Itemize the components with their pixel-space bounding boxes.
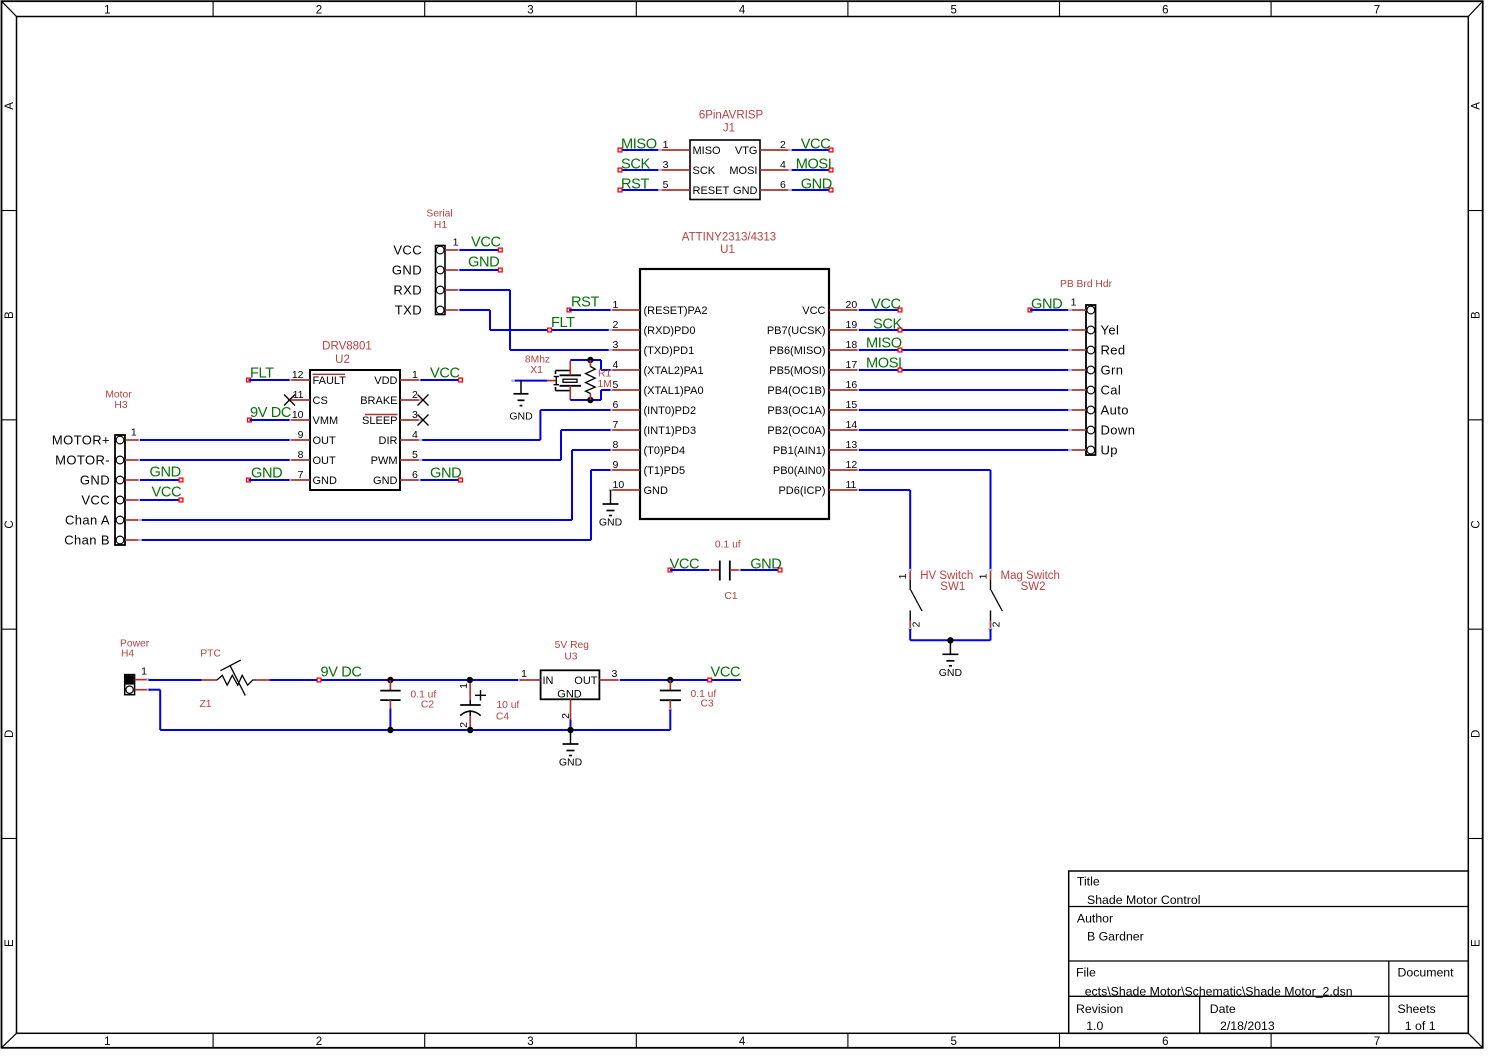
svg-text:C: C: [4, 520, 16, 528]
svg-text:13: 13: [846, 439, 858, 451]
svg-text:MOTOR+: MOTOR+: [52, 433, 110, 448]
svg-text:D: D: [1471, 730, 1483, 738]
svg-text:(RXD)PD0: (RXD)PD0: [644, 325, 696, 337]
svg-text:2: 2: [991, 621, 1003, 627]
svg-text:GND: GND: [80, 473, 110, 488]
svg-text:E: E: [4, 939, 16, 947]
svg-text:MOSI: MOSI: [796, 157, 832, 173]
svg-text:VCC: VCC: [871, 297, 901, 313]
svg-text:RESET: RESET: [693, 185, 730, 197]
svg-text:1: 1: [453, 237, 459, 249]
svg-text:12: 12: [292, 369, 304, 381]
svg-text:1: 1: [458, 683, 470, 689]
svg-text:GND: GND: [509, 411, 533, 423]
svg-text:VDD: VDD: [374, 375, 397, 387]
svg-text:3: 3: [663, 159, 669, 171]
svg-text:SCK: SCK: [873, 317, 902, 333]
svg-text:11: 11: [846, 479, 857, 491]
svg-text:PB3(OC1A): PB3(OC1A): [767, 405, 825, 417]
svg-text:2/18/2013: 2/18/2013: [1220, 1019, 1275, 1033]
svg-text:H1: H1: [434, 220, 447, 231]
svg-text:Chan B: Chan B: [64, 533, 110, 548]
svg-text:(XTAL2)PA1: (XTAL2)PA1: [644, 365, 704, 377]
svg-text:GND: GND: [468, 255, 499, 271]
svg-text:5: 5: [950, 1036, 956, 1048]
svg-text:GND: GND: [150, 465, 181, 481]
svg-text:Auto: Auto: [1101, 403, 1129, 418]
svg-text:Document: Document: [1398, 965, 1455, 979]
svg-text:6: 6: [780, 179, 786, 191]
svg-text:GND: GND: [557, 689, 582, 701]
svg-text:7: 7: [1374, 1036, 1380, 1048]
svg-text:5V Reg: 5V Reg: [555, 640, 590, 651]
svg-text:Motor: Motor: [105, 389, 132, 400]
svg-text:10 uf: 10 uf: [496, 700, 519, 711]
svg-text:6: 6: [1162, 1036, 1168, 1048]
svg-text:SW1: SW1: [940, 581, 965, 593]
svg-text:RXD: RXD: [393, 282, 422, 297]
svg-text:PB4(OC1B): PB4(OC1B): [767, 385, 825, 397]
svg-text:4: 4: [412, 429, 418, 441]
svg-text:9V DC: 9V DC: [250, 405, 291, 421]
svg-text:IN: IN: [543, 675, 554, 687]
svg-text:1: 1: [104, 1036, 110, 1048]
svg-text:GND: GND: [644, 485, 669, 497]
svg-text:8: 8: [298, 449, 304, 461]
svg-text:5: 5: [613, 379, 619, 391]
svg-text:6PinAVRISP: 6PinAVRISP: [699, 109, 764, 121]
svg-text:Revision: Revision: [1076, 1002, 1123, 1016]
svg-text:(T1)PD5: (T1)PD5: [644, 465, 686, 477]
svg-text:GND: GND: [559, 757, 583, 769]
svg-text:1: 1: [663, 139, 669, 151]
svg-text:5: 5: [412, 449, 418, 461]
svg-text:VCC: VCC: [670, 556, 700, 572]
svg-text:3: 3: [527, 4, 533, 16]
svg-text:Chan A: Chan A: [65, 513, 110, 528]
svg-text:1: 1: [521, 668, 527, 680]
svg-text:9: 9: [613, 459, 619, 471]
svg-text:C1: C1: [724, 591, 737, 602]
svg-text:SLEEP: SLEEP: [362, 415, 397, 427]
svg-text:C2: C2: [421, 699, 434, 710]
svg-text:B: B: [1471, 311, 1483, 319]
svg-text:9V DC: 9V DC: [321, 665, 362, 681]
svg-text:2: 2: [316, 1036, 322, 1048]
svg-text:A: A: [1471, 102, 1483, 110]
svg-text:File: File: [1076, 965, 1096, 979]
svg-text:H4: H4: [121, 649, 134, 660]
svg-text:GND: GND: [1031, 297, 1062, 313]
svg-text:U3: U3: [564, 652, 577, 663]
svg-text:BRAKE: BRAKE: [360, 395, 397, 407]
svg-text:GND: GND: [599, 517, 623, 529]
svg-text:MOSI: MOSI: [866, 356, 902, 372]
svg-text:4: 4: [613, 359, 619, 371]
svg-text:2: 2: [780, 139, 786, 151]
svg-text:8: 8: [613, 439, 619, 451]
svg-text:C: C: [1471, 520, 1483, 528]
svg-text:GND: GND: [392, 262, 422, 277]
svg-text:VCC: VCC: [393, 242, 422, 257]
svg-text:D: D: [4, 730, 16, 738]
svg-text:2: 2: [458, 722, 470, 728]
svg-text:H3: H3: [114, 400, 127, 411]
svg-text:GND: GND: [801, 177, 832, 193]
svg-text:RST: RST: [571, 295, 599, 311]
svg-text:FLT: FLT: [250, 366, 274, 382]
svg-text:6: 6: [613, 399, 619, 411]
svg-text:Up: Up: [1101, 443, 1118, 458]
svg-text:Yel: Yel: [1101, 323, 1120, 338]
svg-text:U1: U1: [720, 244, 735, 256]
svg-text:DIR: DIR: [379, 435, 398, 447]
svg-text:SCK: SCK: [693, 165, 716, 177]
svg-text:GND: GND: [939, 667, 963, 679]
svg-text:OUT: OUT: [313, 455, 337, 467]
svg-text:C3: C3: [701, 699, 714, 710]
svg-text:GND: GND: [430, 466, 461, 482]
svg-text:1: 1: [104, 4, 110, 16]
svg-text:9: 9: [298, 429, 304, 441]
svg-text:VTG: VTG: [735, 145, 758, 157]
svg-text:Sheets: Sheets: [1398, 1002, 1436, 1016]
svg-text:(INT1)PD3: (INT1)PD3: [644, 425, 697, 437]
svg-text:Grn: Grn: [1101, 363, 1124, 378]
svg-text:1: 1: [1071, 297, 1077, 309]
svg-text:Serial: Serial: [426, 209, 452, 220]
svg-text:MOSI: MOSI: [729, 165, 757, 177]
svg-text:12: 12: [846, 459, 858, 471]
svg-text:(XTAL1)PA0: (XTAL1)PA0: [644, 385, 704, 397]
svg-text:MISO: MISO: [866, 336, 902, 352]
svg-text:DRV8801: DRV8801: [322, 341, 372, 353]
svg-text:10: 10: [292, 409, 304, 421]
svg-text:VCC: VCC: [802, 305, 825, 317]
svg-text:PB0(AIN0): PB0(AIN0): [773, 465, 826, 477]
svg-text:Date: Date: [1210, 1002, 1236, 1016]
svg-text:18: 18: [846, 339, 858, 351]
svg-text:14: 14: [846, 419, 858, 431]
svg-text:15: 15: [846, 399, 858, 411]
svg-text:5: 5: [663, 179, 669, 191]
svg-text:2: 2: [316, 4, 322, 16]
svg-text:U2: U2: [335, 354, 350, 366]
svg-text:VCC: VCC: [152, 485, 182, 501]
svg-text:MOTOR-: MOTOR-: [55, 453, 110, 468]
svg-text:2: 2: [910, 621, 922, 627]
svg-text:MISO: MISO: [693, 145, 722, 157]
svg-text:RST: RST: [621, 177, 649, 193]
svg-text:CS: CS: [313, 395, 328, 407]
svg-text:SW2: SW2: [1021, 581, 1046, 593]
svg-text:PB7(UCSK): PB7(UCSK): [767, 325, 826, 337]
svg-text:GND: GND: [733, 185, 758, 197]
svg-text:PB Brd Hdr: PB Brd Hdr: [1060, 279, 1113, 290]
svg-text:1: 1: [141, 665, 147, 677]
svg-text:FLT: FLT: [551, 315, 575, 331]
svg-text:A: A: [4, 102, 16, 110]
svg-text:(INT0)PD2: (INT0)PD2: [644, 405, 697, 417]
svg-text:OUT: OUT: [574, 675, 598, 687]
svg-text:E: E: [1471, 939, 1483, 947]
svg-text:OUT: OUT: [313, 435, 337, 447]
svg-text:6: 6: [1162, 4, 1168, 16]
svg-text:7: 7: [613, 419, 619, 431]
svg-text:R1: R1: [598, 369, 611, 380]
svg-text:MISO: MISO: [621, 137, 657, 153]
svg-text:2: 2: [613, 319, 619, 331]
svg-text:7: 7: [298, 469, 304, 481]
svg-text:Red: Red: [1101, 343, 1126, 358]
svg-text:GND: GND: [251, 466, 282, 482]
svg-text:VCC: VCC: [81, 493, 110, 508]
svg-text:4: 4: [739, 4, 746, 16]
svg-text:PB5(MOSI): PB5(MOSI): [769, 365, 825, 377]
svg-text:Down: Down: [1101, 423, 1136, 438]
svg-text:7: 7: [1374, 4, 1380, 16]
svg-text:1: 1: [131, 426, 137, 438]
svg-text:SCK: SCK: [621, 157, 650, 173]
svg-text:1: 1: [412, 369, 418, 381]
svg-text:1 of 1: 1 of 1: [1405, 1019, 1436, 1033]
svg-text:VCC: VCC: [471, 235, 501, 251]
svg-text:2: 2: [560, 713, 572, 719]
svg-text:PTC: PTC: [200, 649, 221, 660]
svg-text:GND: GND: [313, 475, 338, 487]
svg-text:Cal: Cal: [1101, 383, 1122, 398]
svg-text:VCC: VCC: [801, 137, 831, 153]
svg-text:FAULT: FAULT: [313, 375, 347, 387]
svg-text:4: 4: [739, 1036, 746, 1048]
svg-text:1: 1: [977, 573, 989, 579]
svg-text:VCC: VCC: [711, 665, 741, 681]
svg-text:1: 1: [613, 299, 619, 311]
svg-text:X1: X1: [530, 365, 543, 376]
svg-text:3: 3: [613, 339, 619, 351]
svg-text:6: 6: [412, 469, 418, 481]
svg-text:GND: GND: [373, 475, 398, 487]
svg-text:PB2(OC0A): PB2(OC0A): [767, 425, 825, 437]
svg-text:Author: Author: [1077, 911, 1113, 925]
svg-text:(TXD)PD1: (TXD)PD1: [644, 345, 695, 357]
svg-text:ects\Shade Motor\Schematic\Sha: ects\Shade Motor\Schematic\Shade Motor_2…: [1085, 984, 1353, 998]
svg-text:8Mhz: 8Mhz: [525, 354, 550, 365]
svg-text:17: 17: [846, 359, 858, 371]
svg-text:5: 5: [950, 4, 956, 16]
svg-text:TXD: TXD: [395, 302, 422, 317]
svg-text:1.0: 1.0: [1086, 1019, 1103, 1033]
svg-text:PWM: PWM: [371, 455, 398, 467]
svg-text:0.1 uf: 0.1 uf: [715, 540, 741, 551]
svg-text:1M: 1M: [598, 379, 612, 390]
svg-text:4: 4: [780, 159, 786, 171]
svg-text:VMM: VMM: [313, 415, 339, 427]
svg-text:3: 3: [612, 668, 618, 680]
svg-text:J1: J1: [723, 123, 735, 135]
svg-text:PD6(ICP): PD6(ICP): [778, 485, 825, 497]
svg-text:20: 20: [846, 299, 858, 311]
svg-text:PB6(MISO): PB6(MISO): [769, 345, 825, 357]
svg-text:3: 3: [527, 1036, 533, 1048]
svg-text:B: B: [4, 311, 16, 319]
svg-text:B Gardner: B Gardner: [1087, 930, 1144, 944]
svg-text:(T0)PD4: (T0)PD4: [644, 445, 686, 457]
svg-text:1: 1: [897, 573, 909, 579]
svg-text:Shade Motor Control: Shade Motor Control: [1087, 893, 1200, 907]
svg-text:Z1: Z1: [200, 699, 212, 710]
svg-text:(RESET)PA2: (RESET)PA2: [644, 305, 708, 317]
svg-text:16: 16: [846, 379, 858, 391]
svg-text:C4: C4: [496, 711, 509, 722]
svg-text:GND: GND: [750, 556, 781, 572]
svg-text:VCC: VCC: [430, 366, 460, 382]
svg-text:10: 10: [613, 479, 625, 491]
svg-text:PB1(AIN1): PB1(AIN1): [773, 445, 826, 457]
svg-text:Title: Title: [1077, 874, 1100, 888]
svg-text:ATTINY2313/4313: ATTINY2313/4313: [682, 231, 776, 243]
svg-text:19: 19: [846, 319, 858, 331]
